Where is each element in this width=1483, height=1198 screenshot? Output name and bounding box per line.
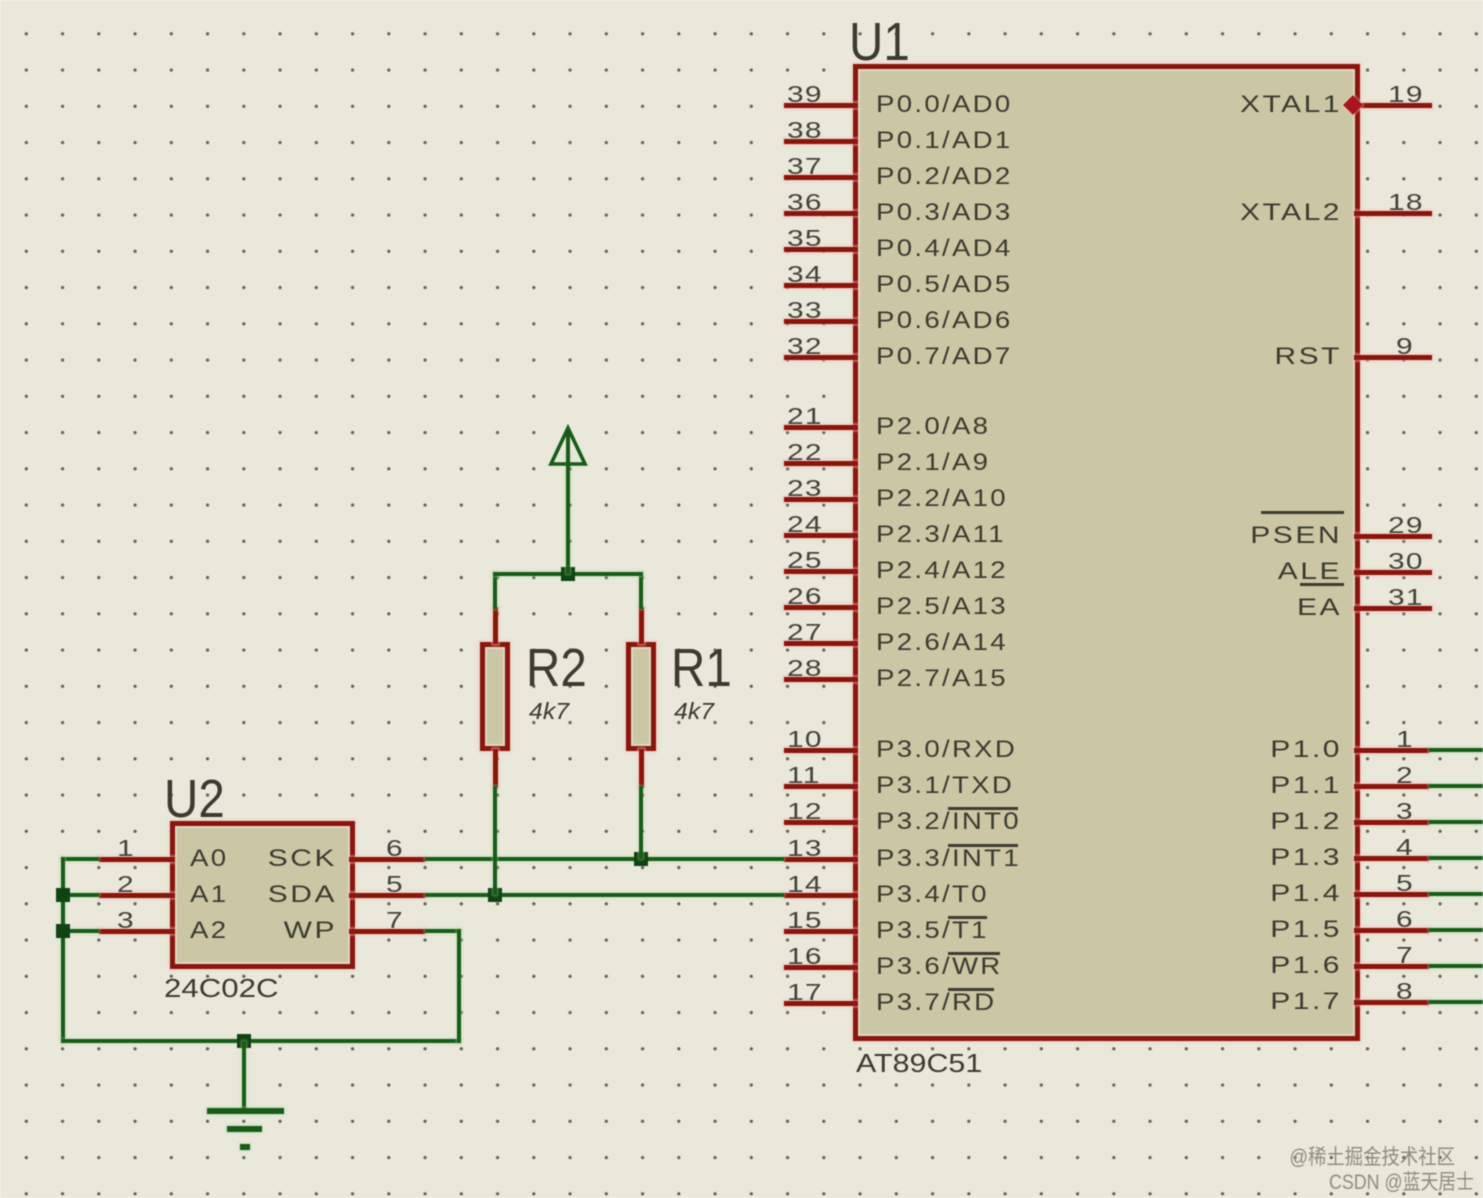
U1 pin 31 EA wire	[1354, 606, 1432, 611]
U1 pin 17 number	[787, 983, 823, 1001]
overline INT0 (pin 12)	[948, 807, 1019, 810]
wire net P1.3 to right edge	[1429, 856, 1483, 860]
wire net P1.7 to right edge	[1429, 1000, 1483, 1004]
U1 pin 9 RST wire	[1354, 355, 1432, 360]
U1 pin 22 P2.1/A9 wire	[784, 461, 858, 466]
U1 pin label P1.0	[1130, 740, 1343, 760]
watermark csdn user	[1219, 1172, 1474, 1192]
wire net P1.4 to right edge	[1429, 892, 1483, 896]
overline EA	[1300, 583, 1344, 586]
U1 pin 34 P0.5/AD5 wire	[784, 283, 858, 288]
U1 pin 25 number	[787, 551, 823, 569]
U1 pin 12 number	[787, 802, 823, 820]
U1 pin label P2.2/A10	[876, 489, 1008, 509]
ground bar 3	[240, 1144, 250, 1150]
overline WR (pin 16)	[948, 952, 1000, 955]
ground stem wire	[242, 1041, 246, 1110]
wire R2 top to R1 top	[493, 572, 643, 576]
U1 pin label XTAL1	[1130, 95, 1343, 115]
R1 top wire	[639, 572, 643, 609]
U2 pin 1 number	[117, 839, 135, 857]
U1 pin label P0.6/AD6	[876, 311, 1013, 331]
R2 refdes label	[526, 648, 587, 688]
watermark juejin community	[1193, 1147, 1456, 1167]
junction bus/pin3	[56, 924, 70, 938]
U1 pin 23 P2.2/A10 wire	[784, 497, 858, 502]
U1 pin 34 number	[787, 265, 823, 283]
U1 pin 38 number	[787, 121, 823, 139]
U1 pin label P3.6/WR	[876, 957, 1003, 977]
U1 pin label P2.4/A12	[876, 561, 1008, 581]
U1 pin 7 number	[1396, 946, 1414, 964]
U1 pin 1 P1.0 wire	[1354, 748, 1429, 753]
R1 value 4k7	[674, 701, 714, 721]
U1 pin 37 P0.2/AD2 wire	[784, 175, 858, 180]
U1 pin label P1.1	[1130, 776, 1343, 796]
U1 pin 11 P3.1/TXD wire	[784, 784, 858, 789]
overline T1 (pin 15)	[948, 916, 988, 919]
U1 pin 32 number	[787, 337, 823, 355]
wire U2 pin3 to left bus	[61, 929, 99, 933]
U1 pin 10 P3.0/RXD wire	[784, 748, 858, 753]
junction rail/ground	[237, 1034, 251, 1048]
wire U2 pin1 to left bus	[61, 857, 99, 861]
junction power/top wire	[561, 567, 575, 581]
wire U2 pin2 to left bus	[61, 893, 99, 897]
U2 pin 2 A1 wire	[99, 893, 175, 898]
U1 pin label P3.1/TXD	[876, 776, 1014, 796]
U1 pin label P0.1/AD1	[876, 131, 1013, 151]
U1 pin label P0.0/AD0	[876, 95, 1013, 115]
U1 pin 29 number	[1388, 516, 1424, 534]
U1 pin 32 P0.7/AD7 wire	[784, 355, 858, 360]
U1 pin 19 XTAL1 wire	[1354, 103, 1432, 108]
U2 pin 2 number	[117, 875, 135, 893]
overline PSEN	[1261, 511, 1344, 514]
U1 pin 7 P1.6 wire	[1354, 964, 1429, 969]
U2 pin 6 number	[386, 839, 404, 857]
U1 pin 9 number	[1396, 337, 1414, 355]
U1 pin label P0.4/AD4	[876, 239, 1013, 259]
U2 value label 24C02C	[164, 978, 278, 998]
IC U1 AT89C51 body	[853, 64, 1360, 1041]
U1 pin 5 number	[1396, 874, 1414, 892]
U1 pin label P0.2/AD2	[876, 167, 1013, 187]
left bus vertical wire	[61, 857, 65, 1043]
U2 pin 5 SDA wire	[349, 893, 425, 898]
U1 pin 35 number	[787, 229, 823, 247]
U1 pin label P3.2/INT0	[876, 812, 1021, 832]
U1 pin 11 number	[787, 766, 821, 784]
U1 pin 21 P2.0/A8 wire	[784, 425, 858, 430]
right vertical wire WP to rail	[457, 929, 461, 1043]
R2 bottom wire to SDA	[493, 786, 497, 895]
U1 pin label PSEN	[1130, 526, 1343, 546]
U1 pin 26 P2.5/A13 wire	[784, 605, 858, 610]
U1 pin label P0.3/AD3	[876, 203, 1013, 223]
U1 pin 2 number	[1396, 766, 1414, 784]
U2 pin 7 number	[386, 911, 404, 929]
IC U2 24C02C body	[170, 821, 355, 969]
U1 pin label P2.5/A13	[876, 597, 1008, 617]
U1 pin 18 number	[1388, 193, 1424, 211]
U2 pin 3 A2 wire	[99, 929, 175, 934]
U2 pin label SCK	[237, 849, 337, 869]
U1 pin label P1.2	[1130, 812, 1343, 832]
junction bus/pin2	[56, 888, 70, 902]
U1 pin 22 number	[787, 443, 823, 461]
U1 pin 18 XTAL2 wire	[1354, 211, 1432, 216]
U1 pin 28 number	[787, 659, 823, 677]
U1 pin 21 number	[787, 407, 823, 425]
junction R2/SDA	[488, 888, 502, 902]
wire net P1.2 to right edge	[1429, 820, 1483, 824]
U1 pin 31 number	[1388, 588, 1424, 606]
overline RD (pin 17)	[948, 988, 995, 991]
U2 pin label WP	[237, 921, 337, 941]
U1 pin label P3.5/T1	[876, 921, 989, 941]
U1 pin 38 P0.1/AD1 wire	[784, 139, 858, 144]
U1 pin 15 P3.5/T1 wire	[784, 929, 858, 934]
U1 pin 27 number	[787, 623, 823, 641]
U1 pin 27 P2.6/A14 wire	[784, 641, 858, 646]
U2 pin 7 WP wire	[349, 929, 425, 934]
U1 pin 6 P1.5 wire	[1354, 928, 1429, 933]
ground bar 2	[227, 1126, 262, 1132]
U2 pin 1 A0 wire	[99, 857, 175, 862]
U1 pin label P1.7	[1130, 992, 1343, 1012]
U1 pin 36 number	[787, 193, 823, 211]
U2 pin 3 number	[117, 911, 135, 929]
U1 pin 1 number	[1396, 730, 1414, 748]
ground bar 1	[207, 1108, 284, 1114]
resistor R1 body	[626, 642, 656, 751]
U1 pin 8 number	[1396, 982, 1414, 1000]
U1 pin 33 number	[787, 301, 823, 319]
U1 pin label P2.1/A9	[876, 453, 990, 473]
R2 value 4k7	[529, 701, 569, 721]
U1 pin label P3.3/INT1	[876, 849, 1021, 869]
R1 refdes label	[671, 648, 732, 688]
U1 pin 29 PSEN wire	[1354, 534, 1432, 539]
U1 pin 13 P3.3/INT1 wire	[784, 857, 858, 862]
U1 pin 24 number	[787, 515, 823, 533]
power stem wire	[566, 452, 570, 574]
U1 pin label EA	[1130, 598, 1343, 618]
U2 pin label A2	[190, 921, 228, 941]
U1 pin 17 P3.7/RD wire	[784, 1001, 858, 1006]
U1 pin 28 P2.7/A15 wire	[784, 677, 858, 682]
U1 pin 12 P3.2/INT0 wire	[784, 820, 858, 825]
R1 bottom wire to SCK	[639, 786, 643, 859]
U1 pin 19 number	[1388, 85, 1424, 103]
ground rail wire	[61, 1039, 461, 1043]
U1 pin 16 P3.6/WR wire	[784, 965, 858, 970]
U1 pin 23 number	[787, 479, 823, 497]
U1 pin label P1.6	[1130, 956, 1343, 976]
U1 pin 24 P2.3/A11 wire	[784, 533, 858, 538]
U1 pin 14 number	[787, 875, 823, 893]
U1 pin label XTAL2	[1130, 203, 1343, 223]
U1 value label AT89C51	[856, 1053, 982, 1073]
wire net P1.5 to right edge	[1429, 928, 1483, 932]
R2 top wire	[493, 572, 497, 609]
U1 pin label P3.4/T0	[876, 885, 989, 905]
net SCK wire U2 to U1 P3.3	[425, 857, 784, 861]
U1 pin 30 number	[1388, 552, 1424, 570]
U2 pin label A0	[190, 849, 228, 869]
U1 pin 26 number	[787, 587, 823, 605]
U2 refdes label	[164, 779, 225, 819]
U1 pin 39 P0.0/AD0 wire	[784, 103, 858, 108]
U1 pin label P3.0/RXD	[876, 740, 1017, 760]
power arrow symbol	[546, 424, 590, 472]
U1 pin 10 number	[787, 730, 823, 748]
U2 pin 6 SCK wire	[349, 857, 425, 862]
U1 pin 36 P0.3/AD3 wire	[784, 211, 858, 216]
U2 pin label SDA	[237, 885, 337, 905]
junction R1/SCK	[634, 852, 648, 866]
wire net P1.1 to right edge	[1429, 784, 1483, 788]
U1 pin label ALE	[1130, 562, 1343, 582]
U1 pin 39 number	[787, 85, 823, 103]
U1 pin 6 number	[1396, 910, 1414, 928]
U1 pin label P2.0/A8	[876, 417, 990, 437]
U1 pin 13 number	[787, 839, 823, 857]
U1 pin label P2.6/A14	[876, 633, 1008, 653]
XTAL1 pin connection diamond	[1343, 95, 1363, 115]
U2 pin label A1	[190, 885, 228, 905]
R1 bottom lead	[639, 749, 644, 788]
U1 pin label P3.7/RD	[876, 993, 996, 1013]
U1 pin 3 number	[1396, 802, 1414, 820]
U1 pin label P0.5/AD5	[876, 275, 1013, 295]
U1 pin 5 P1.4 wire	[1354, 892, 1429, 897]
R2 bottom lead	[493, 749, 498, 788]
U1 pin 30 ALE wire	[1354, 570, 1432, 575]
U1 pin 37 number	[787, 157, 823, 175]
U1 pin 16 number	[787, 947, 823, 965]
R2 top lead	[493, 607, 498, 644]
U1 pin 2 P1.1 wire	[1354, 784, 1429, 789]
U2 pin 5 number	[386, 875, 404, 893]
U1 pin 8 P1.7 wire	[1354, 1000, 1429, 1005]
U1 refdes label	[849, 22, 910, 62]
U1 pin 33 P0.6/AD6 wire	[784, 319, 858, 324]
net SDA wire U2 to U1 P3.4	[425, 893, 784, 897]
overline INT1 (pin 13)	[948, 844, 1019, 847]
U1 pin label P2.7/A15	[876, 669, 1008, 689]
U1 pin 4 P1.3 wire	[1354, 856, 1429, 861]
wire WP to right vertical	[425, 929, 461, 933]
U1 pin 3 P1.2 wire	[1354, 820, 1429, 825]
U1 pin 4 number	[1396, 838, 1414, 856]
U1 pin 15 number	[787, 911, 823, 929]
R1 top lead	[639, 607, 644, 644]
wire net P1.6 to right edge	[1429, 964, 1483, 968]
U1 pin 25 P2.4/A12 wire	[784, 569, 858, 574]
wire net P1.0 to right edge	[1429, 748, 1483, 752]
U1 pin 35 P0.4/AD4 wire	[784, 247, 858, 252]
U1 pin label P2.3/A11	[876, 525, 1006, 545]
U1 pin label P1.4	[1130, 884, 1343, 904]
resistor R2 body	[480, 642, 510, 751]
U1 pin label P1.5	[1130, 920, 1343, 940]
U1 pin label P0.7/AD7	[876, 347, 1013, 367]
U1 pin label RST	[1130, 347, 1343, 367]
U1 pin label P1.3	[1130, 848, 1343, 868]
U1 pin 14 P3.4/T0 wire	[784, 893, 858, 898]
